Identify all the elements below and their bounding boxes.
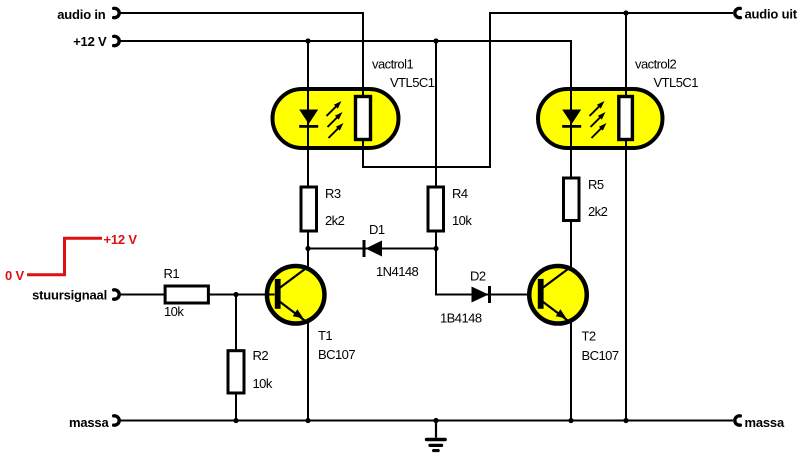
transistor T1 body	[267, 266, 325, 324]
resistor R4	[428, 187, 444, 231]
svg-text:R3: R3	[325, 186, 341, 201]
vactrol1 VTL5C1 body	[273, 89, 399, 148]
LDR of vactrol2	[619, 97, 633, 140]
wire +12V rail to vactrol2 LED column	[119, 41, 571, 268]
LED of vactrol1	[299, 110, 318, 127]
diode D1	[364, 240, 382, 257]
junction R4 / D1 / D2	[433, 246, 438, 251]
junction massa / T2 emitter	[568, 418, 573, 423]
junction R1 / R2 / T1 base	[233, 292, 238, 297]
svg-text:R1: R1	[164, 266, 180, 281]
wire D1 junction down and right through D2 to T2 base	[436, 249, 528, 295]
svg-text:1N4148: 1N4148	[376, 264, 419, 279]
svg-text:VTL5C1: VTL5C1	[654, 75, 699, 90]
svg-text:10k: 10k	[253, 376, 273, 391]
LDR of vactrol1	[356, 97, 371, 140]
junction massa / vactrol2 LDR	[623, 418, 628, 423]
transistor T2 internals	[538, 267, 571, 323]
wire audio in to vactrol1 LDR, LDR down, over and up to audio uit	[119, 13, 733, 167]
wire T2 emitter to massa	[570, 323, 572, 421]
terminal massa left	[114, 416, 120, 425]
junction massa / T1 emitter	[305, 418, 310, 423]
svg-text:D1: D1	[369, 222, 385, 237]
svg-text:10k: 10k	[164, 304, 184, 319]
svg-text:massa: massa	[745, 415, 785, 430]
junction +12V / R4	[433, 38, 438, 43]
svg-text:vactrol1: vactrol1	[372, 57, 413, 72]
transistor T2 body	[529, 266, 587, 324]
wire +12V to R4 column	[435, 41, 437, 249]
terminal audio in	[114, 8, 120, 17]
svg-text:T1: T1	[318, 328, 332, 343]
wire T1 collector	[307, 249, 309, 268]
svg-text:massa: massa	[69, 415, 109, 430]
terminal massa right	[735, 416, 741, 425]
resistor R1	[165, 286, 208, 303]
junction massa / ground	[433, 418, 438, 423]
wire D1 row	[308, 248, 436, 250]
junction massa / R2	[233, 418, 238, 423]
resistor R5	[564, 178, 580, 221]
junction +12V / vactrol1 LED	[305, 38, 310, 43]
svg-text:0 V: 0 V	[5, 268, 24, 283]
terminal stuursignaal	[114, 290, 120, 299]
light arrows of vactrol2	[590, 101, 607, 138]
svg-text:R4: R4	[452, 186, 468, 201]
junction audio uit / vactrol2 LDR	[623, 10, 628, 15]
svg-text:BC107: BC107	[318, 347, 355, 362]
terminal +12V	[114, 36, 120, 45]
svg-text:audio uit: audio uit	[745, 7, 798, 22]
svg-text:vactrol2: vactrol2	[635, 57, 676, 72]
svg-text:BC107: BC107	[582, 348, 619, 363]
transistor T1 internals	[275, 267, 308, 323]
diode D2	[472, 286, 490, 303]
ground symbol	[427, 421, 446, 451]
terminal audio uit	[735, 8, 741, 17]
svg-text:1B4148: 1B4148	[440, 311, 482, 326]
svg-text:stuursignaal: stuursignaal	[32, 288, 107, 303]
svg-text:+12 V: +12 V	[73, 34, 107, 49]
svg-text:T2: T2	[582, 329, 596, 344]
wire vactrol2 LDR column audio uit to massa	[625, 13, 627, 421]
svg-text:D2: D2	[470, 269, 486, 284]
svg-text:+12 V: +12 V	[104, 232, 138, 247]
wire massa rail	[119, 420, 733, 422]
LED of vactrol2	[562, 110, 581, 127]
svg-text:R5: R5	[588, 177, 604, 192]
svg-text:VTL5C1: VTL5C1	[390, 75, 435, 90]
svg-text:2k2: 2k2	[588, 204, 608, 219]
junction R3 / D1 / T1 collector	[305, 246, 310, 251]
resistor R3	[301, 187, 317, 231]
wire R2 column	[235, 295, 237, 421]
wire T1 emitter to massa	[307, 323, 309, 421]
wire vactrol1 LED / R3 column	[307, 41, 309, 249]
vactrol2 VTL5C1 body	[538, 89, 663, 148]
svg-text:audio in: audio in	[57, 7, 105, 22]
light arrows of vactrol1	[327, 101, 344, 138]
resistor R2	[228, 351, 244, 393]
svg-text:2k2: 2k2	[325, 213, 345, 228]
svg-text:R2: R2	[253, 348, 269, 363]
wire stuursignaal to T1 base	[119, 294, 275, 296]
svg-text:10k: 10k	[452, 213, 472, 228]
red control signal waveform	[27, 238, 102, 274]
